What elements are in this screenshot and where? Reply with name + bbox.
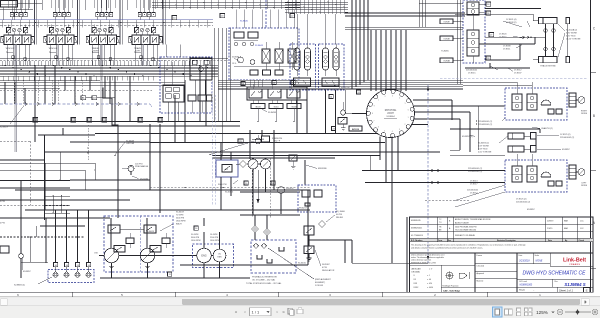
orifice label S1J0648 (209, 139, 265, 155)
svg-text:01-T7464/024: 01-T7464/024 (411, 235, 423, 237)
date and scale cells (517, 253, 550, 266)
engine enclosure dashed (193, 244, 234, 268)
svg-text:REFERENCE ASME Y14.5-1994: REFERENCE ASME Y14.5-1994 (411, 262, 436, 265)
svg-text:WL: WL (225, 169, 228, 171)
svg-text:Checked: Checked (477, 266, 484, 268)
layout button continuous (517, 308, 521, 316)
svg-text:1X 8513: 1X 8513 (470, 180, 478, 182)
svg-text:LEFT: LEFT (136, 50, 142, 52)
swing feed dashed line (427, 85, 429, 263)
travel counterbalance valve group A (290, 44, 316, 90)
revision table (410, 217, 594, 242)
pump enclosure divider (139, 216, 141, 272)
svg-text:Drawn: Drawn (477, 254, 482, 257)
svg-text:8DC8: 8DC8 (256, 106, 261, 108)
svg-text:1X 8-: 1X 8- (232, 63, 237, 65)
pilot supply bus line (0, 19, 213, 21)
svg-text:1X 8525 (2): 1X 8525 (2) (516, 199, 527, 201)
solenoid manifold bank center (247, 84, 307, 103)
upper manifold block (229, 28, 299, 80)
zoom in button (592, 309, 598, 315)
svg-text:BOX B: BOX B (352, 129, 359, 131)
svg-text:OIL VOLUME – 262 GAL: OIL VOLUME – 262 GAL (252, 279, 276, 282)
svg-text:5400 PSI: 5400 PSI (176, 218, 185, 220)
svg-text:S1J0028: S1J0028 (146, 231, 155, 233)
svg-text:SOL0: SOL0 (274, 106, 279, 108)
svg-text:3 PSI: 3 PSI (0, 201, 5, 203)
svg-text:S1J0648: S1J0648 (126, 141, 135, 143)
tags above manifold bank (238, 81, 361, 144)
svg-text:E: E (586, 289, 588, 293)
svg-text:S1J0615: S1J0615 (225, 192, 234, 194)
svg-text:TRAVEL: TRAVEL (134, 47, 143, 50)
svg-text:S1J8864: S1J8864 (386, 116, 395, 118)
svg-text:50 GPM: 50 GPM (191, 234, 199, 236)
case drain regulator 6 PSI (268, 246, 335, 287)
toolbar copy icon (288, 308, 294, 315)
svg-text:This drawing is the property o: This drawing is the property of Link-Bel… (411, 243, 526, 246)
svg-text:1X 8515: 1X 8515 (468, 72, 476, 74)
nested routing loops center-top (218, 0, 465, 89)
svg-text:S1J0094 (2): S1J0094 (2) (478, 143, 489, 145)
svg-text:WINCH 1: WINCH 1 (49, 48, 58, 50)
tank return bus line (0, 21, 213, 23)
pump control valves (108, 218, 170, 252)
wire grid - left routing (0, 65, 440, 220)
long return lines to rotary joint (180, 190, 428, 265)
pump suction and case drain wires (100, 218, 250, 279)
sheet right border (591, 0, 597, 292)
svg-text:S1J0019: S1J0019 (176, 212, 185, 214)
svg-text:DRIVE: DRIVE (581, 185, 588, 187)
svg-text:HYDRAULIC RESERVOIR: HYDRAULIC RESERVOIR (252, 276, 277, 279)
pilot dashed drops left (14, 80, 89, 160)
layout button two pages (505, 309, 513, 315)
svg-text:0 PSI: 0 PSI (0, 222, 5, 224)
layout button facing (525, 308, 533, 316)
svg-text:EAR: EAR (564, 227, 569, 230)
svg-text:± .0050: ± .0050 (427, 287, 433, 289)
svg-text:M18881000: M18881000 (520, 284, 533, 287)
return check RSL05C (278, 187, 295, 214)
label M3J5386 (305, 160, 327, 185)
main gallery bus bundle (0, 61, 218, 81)
steer line labels (466, 19, 530, 74)
svg-text:4: 4 (399, 98, 400, 100)
toolbar print icon (297, 308, 303, 314)
svg-text:1 / 1: 1 / 1 (252, 310, 261, 315)
oil cooler fan motors (248, 159, 271, 169)
svg-text:SIMILAR TO S1J8864E: SIMILAR TO S1J8864E (455, 234, 476, 237)
svg-text:100 PSI: 100 PSI (135, 164, 143, 166)
check valve bank lower left (14, 210, 94, 286)
tolerance cell (410, 254, 476, 293)
svg-text:Link‑Belt: Link‑Belt (563, 258, 586, 264)
toolbar background (0, 306, 600, 318)
svg-text:«: « (235, 310, 238, 315)
svg-text:REGULATOR: REGULATOR (322, 269, 335, 272)
title block middle rows (475, 254, 593, 292)
svg-text:6.69" BORE: 6.69" BORE (478, 146, 489, 148)
svg-text:2210099001 (2): 2210099001 (2) (468, 168, 482, 170)
svg-text:2210099501 (2): 2210099501 (2) (478, 124, 492, 126)
svg-text:2210061002 (2): 2210061002 (2) (516, 202, 530, 204)
left track drive motor block (505, 154, 588, 192)
aux solenoid valve near fan return (289, 155, 297, 169)
EO level and rev cells (520, 279, 586, 287)
fan line filter (236, 161, 247, 168)
svg-text:16.25" STROKE: 16.25" STROKE (566, 39, 581, 41)
svg-text:CEA6718 (2): CEA6718 (2) (541, 127, 553, 130)
upper manifold stubs (236, 10, 294, 29)
label S2J0829 (0, 106, 24, 129)
upper long line pair right (345, 27, 463, 29)
horizontal scrollbar thumb (182, 299, 580, 305)
svg-text:6: 6 (378, 126, 379, 128)
winch brake valve block S1J0615 (216, 143, 238, 211)
svg-text:S1J8438: S1J8438 (268, 112, 277, 114)
svg-text:T3JC156 W/AS S8J5134: T3JC156 W/AS S8J5134 (455, 229, 476, 232)
zoom slider (565, 309, 591, 314)
counterweight cylinder lower (508, 146, 536, 153)
svg-text:JCC: JCC (580, 228, 584, 230)
tag boxes top (172, 14, 295, 23)
svg-text:EO Level: EO Level (520, 281, 528, 283)
svg-text:M3J5386: M3J5386 (318, 168, 327, 170)
svg-text:3000 PSI: 3000 PSI (218, 184, 227, 186)
svg-text:S1J8640: S1J8640 (240, 20, 249, 22)
CAD Solid Edge cell (443, 289, 461, 292)
pilot control manifold (160, 45, 212, 122)
frame line left of title block (406, 217, 408, 292)
svg-text:Material: Material (477, 280, 484, 283)
svg-text:3: 3 (399, 129, 400, 131)
svg-text:65J8583: 65J8583 (232, 57, 239, 59)
riser connections to buses (3, 20, 208, 28)
track extend cylinder upper (533, 18, 570, 24)
scrollbar right button (581, 299, 589, 306)
confidentiality note (410, 242, 594, 253)
pilot phantom line with flow arrows (0, 103, 152, 107)
svg-text:2210061002: 2210061002 (467, 190, 479, 192)
svg-text:1X 8620: 1X 8620 (499, 34, 507, 36)
travel counterbalance valve group B (319, 44, 345, 90)
stepped drain line (102, 87, 118, 218)
tags right of steer stack (479, 2, 494, 60)
svg-text:unless otherwise specified.: unless otherwise specified. (411, 259, 432, 262)
svg-text:3/23/2018: 3/23/2018 (519, 259, 530, 262)
pilot dashed risers center (212, 80, 215, 205)
Link-Belt logo (550, 258, 593, 267)
fan thermostat FSBR0224 (252, 136, 283, 143)
engine (197, 248, 211, 262)
svg-text:± .020: ± .020 (427, 283, 432, 285)
svg-text:1X 8588: 1X 8588 (503, 46, 511, 48)
pump drive shaft (94, 252, 197, 255)
toolbar page number input (250, 308, 272, 316)
orifice label S1J0648 left (114, 141, 134, 157)
rotary joint feed lines top (371, 30, 406, 91)
title block main outline (410, 253, 594, 292)
svg-text:65J8857: 65J8857 (23, 271, 32, 273)
svg-text:132 °F: 132 °F (274, 141, 281, 143)
svg-text:2210099001 (2): 2210099001 (2) (478, 121, 492, 123)
solenoid coil tag boxes under manifold (251, 104, 301, 123)
svg-text:40 PSI: 40 PSI (336, 214, 342, 216)
scrollbar left button (1, 299, 8, 306)
svg-text:7: 7 (374, 120, 375, 122)
svg-text:ROTATING: ROTATING (385, 109, 397, 112)
svg-text:EACH: EACH (176, 223, 182, 226)
svg-text:Date: Date (519, 254, 523, 257)
svg-text:1X 8525 (2): 1X 8525 (2) (560, 134, 571, 136)
svg-text:DECIMAL: DECIMAL (412, 270, 420, 273)
top edge riser lines (20, 0, 300, 10)
track extend labels (558, 24, 581, 57)
svg-text:2210099501 (2): 2210099501 (2) (468, 171, 482, 173)
rotary joint lines bottom (352, 114, 398, 264)
svg-text:Rev: Rev (555, 281, 558, 283)
svg-text:1800 RPM: 1800 RPM (210, 240, 220, 242)
svg-text:EAR: EAR (564, 220, 569, 223)
svg-text:CAD - Solid Edge: CAD - Solid Edge (443, 289, 461, 292)
svg-text:65J8857 (2): 65J8857 (2) (462, 136, 473, 138)
svg-text:Scale: Scale (535, 255, 540, 257)
svg-text:JOINT: JOINT (387, 113, 394, 115)
svg-text:2: 2 (405, 124, 406, 126)
svg-text:»: » (282, 310, 285, 315)
steer crossover wires (465, 9, 545, 69)
tag BOX B (349, 126, 362, 131)
svg-text:PRECHARGE: PRECHARGE (135, 165, 149, 168)
svg-text:4.00" STROKE: 4.00" STROKE (478, 152, 492, 154)
svg-text:Weight: Weight (519, 288, 525, 291)
track extend rod-end link (455, 14, 568, 57)
svg-text:16 GPM: 16 GPM (210, 234, 218, 236)
tags OCK39 OCK38 OCK3B (440, 19, 463, 63)
svg-text:4: 4 (392, 131, 393, 133)
svg-text:Approval: Approval (477, 272, 485, 275)
svg-text:S1J6643: S1J6643 (255, 45, 264, 47)
svg-text:RSL05C: RSL05C (286, 188, 294, 190)
svg-text:1X 8631 (4): 1X 8631 (4) (506, 19, 517, 21)
tag pair B1 D4 (81, 96, 115, 104)
svg-text:1: 1 (408, 117, 409, 119)
valve section V3 (TRAVEL) (86, 0, 119, 65)
svg-text:1X 8537: 1X 8537 (514, 72, 522, 74)
suction filters above reservoir (240, 214, 300, 240)
BOX B pilot valve (332, 102, 348, 131)
svg-text:OCK39: OCK39 (443, 22, 449, 24)
terminal tag boxes row (33, 118, 163, 123)
left drive labels (467, 168, 536, 211)
svg-text:2/29/19: 2/29/19 (547, 221, 553, 223)
svg-text:(REPLACEMENT: (REPLACEMENT (315, 278, 331, 281)
svg-text:2/1/19: 2/1/19 (547, 228, 552, 230)
svg-text:1X 8517: 1X 8517 (470, 183, 478, 185)
svg-text:6 PSI: 6 PSI (322, 267, 327, 269)
svg-text:1X 8511: 1X 8511 (503, 48, 511, 50)
svg-text:65J8857: 65J8857 (527, 209, 536, 211)
zoom out button (557, 309, 563, 315)
main pressure hose risers (thick) (15, 45, 102, 153)
svg-text:1X 8512: 1X 8512 (514, 70, 522, 72)
pilot dashed return header (0, 90, 152, 92)
svg-text:DRIVE: DRIVE (581, 113, 588, 115)
svg-text:6: 6 (408, 110, 409, 112)
junction and label 65J8857 (19, 180, 32, 278)
main pump 1 (104, 248, 118, 262)
steer valve stack OCK (463, 0, 485, 63)
main pump 2 (140, 248, 154, 262)
svg-text:1: 1 (378, 100, 379, 102)
svg-text:and details contained herein i: and details contained herein is prohibit… (411, 247, 483, 250)
label DSJ1130 (132, 176, 149, 180)
svg-text:TOTAL SYSTEM VOLUME – 397 GAL: TOTAL SYSTEM VOLUME – 397 GAL (246, 282, 282, 285)
svg-text:NONE: NONE (536, 259, 543, 262)
svg-text:AD350 T3J6039: AD350 T3J6039 (455, 221, 469, 224)
svg-text:70 GPM: 70 GPM (176, 215, 184, 217)
accumulator 100 PSI PRECHARGE (122, 164, 149, 176)
main pump assembly dashed enclosure (104, 216, 173, 272)
label M5J5786 (334, 85, 350, 89)
svg-text:8: 8 (372, 113, 373, 115)
cylinder group wires (450, 128, 540, 155)
top left component box (0, 1, 42, 20)
svg-text:LEFT: LEFT (582, 183, 588, 185)
svg-text:.XXXX: .XXXX (413, 287, 419, 289)
svg-text:S2J8682 (4): S2J8682 (4) (14, 284, 25, 286)
svg-text:D5J1130: D5J1130 (140, 178, 149, 180)
junction ladder above travel cluster (285, 0, 348, 14)
svg-text:SOLB: SOLB (291, 106, 297, 108)
svg-text:3600 PSI: 3600 PSI (191, 237, 200, 239)
third angle projection symbol (441, 271, 475, 288)
svg-text:TRACK EXTEND: TRACK EXTEND (540, 65, 556, 68)
relief valve 40 PSI (304, 211, 346, 246)
valve section V4 (TRAVEL) (129, 0, 162, 65)
svg-text:DWG HYD SCHEMATIC CE: DWG HYD SCHEMATIC CE (523, 271, 587, 277)
fan circuit wires (240, 130, 300, 215)
sheet number cell (557, 287, 590, 292)
svg-text:9: 9 (374, 106, 375, 108)
svg-text:Sheet 1 of 1: Sheet 1 of 1 (559, 288, 574, 292)
svg-text:± .1: ± .1 (427, 275, 430, 277)
steer feed dashed long line (440, 78, 588, 86)
horizontal scrollbar track (0, 298, 600, 306)
zoom percentage 125% (536, 310, 554, 315)
svg-text:ELEMENT): ELEMENT) (315, 282, 325, 284)
extra top risers valve bank (9, 0, 158, 8)
svg-text:RIGHT: RIGHT (92, 50, 99, 52)
svg-text:2210061002 (2): 2210061002 (2) (560, 137, 574, 139)
track extend cylinder lower (533, 57, 570, 68)
left margin stubs (0, 201, 110, 263)
secondary gallery lines (0, 81, 185, 89)
svg-text:± 1°: ± 1° (429, 268, 433, 270)
svg-text:2900 PSI: 2900 PSI (210, 237, 219, 239)
sheet bottom border (0, 292, 600, 297)
gallery lines under valve bank (0, 59, 228, 61)
fan return arrow and dashes (150, 158, 310, 218)
svg-text:TRAVEL: TRAVEL (92, 47, 101, 50)
svg-text:B: B (593, 114, 595, 118)
svg-text:1800 RPM: 1800 RPM (191, 240, 201, 242)
svg-text:D7J0149: D7J0149 (315, 285, 324, 287)
svg-text:T5J8205: T5J8205 (441, 51, 450, 53)
svg-text:S2J0829: S2J0829 (0, 127, 9, 129)
svg-text:S1J9864 S: S1J9864 S (564, 282, 585, 287)
svg-text:3: 3 (392, 95, 393, 97)
svg-text:S1J0010: S1J0010 (298, 263, 307, 265)
svg-text:(R) J0066: (R) J0066 (336, 211, 346, 213)
pump spec labels (146, 212, 220, 277)
aux valve box P8J0217 (298, 185, 336, 212)
load sense dashed line (0, 24, 213, 26)
counterweight cylinder upper (508, 133, 536, 140)
svg-text:6.69" ROD: 6.69" ROD (478, 149, 488, 151)
svg-text:1800 RPM: 1800 RPM (176, 221, 186, 223)
svg-text:ENG: ENG (201, 255, 206, 258)
svg-text:FAN: FAN (218, 255, 222, 258)
svg-text:125%: 125% (536, 310, 548, 315)
P/T gallery risers between valve sections (35, 0, 166, 45)
svg-text:5000 PSI W/AS 4940 PSI: 5000 PSI W/AS 4940 PSI (455, 225, 477, 228)
svg-text:65J8857: 65J8857 (562, 149, 571, 151)
track extend check valves (544, 24, 555, 57)
svg-text:5: 5 (405, 103, 406, 105)
svg-text:M-8801035: M-8801035 (411, 220, 421, 222)
manifold-to-coil risers (250, 80, 262, 87)
left drive feed wires (362, 156, 505, 208)
dashed enclosure lower left (0, 141, 70, 206)
svg-text:WINCH 2: WINCH 2 (6, 48, 15, 50)
svg-text:5: 5 (384, 130, 385, 132)
svg-text:± .06: ± .06 (427, 279, 431, 281)
svg-text:M-8882/2021: M-8882/2021 (411, 227, 422, 229)
svg-text:JCC: JCC (580, 221, 584, 223)
right track drive motor block (505, 82, 588, 120)
layout button single page (active) (493, 307, 503, 317)
drawing title DWG HYD SCHEMATIC CE (517, 271, 593, 280)
svg-text:C R A N E S: C R A N E S (569, 263, 580, 266)
svg-text:OCK3B: OCK3B (443, 61, 450, 63)
valve section V2 (WINCH 1) (44, 0, 77, 65)
svg-text:RIGHT: RIGHT (581, 111, 588, 113)
left area long line extensions (0, 151, 96, 210)
svg-text:OCK38: OCK38 (443, 39, 449, 41)
valve section V1 (WINCH 2) (1, 0, 34, 65)
rotary joint lines right (411, 100, 505, 152)
svg-text:M5J5786: M5J5786 (341, 87, 350, 89)
return mesh lower left (44, 195, 70, 214)
right drive part labels (476, 118, 505, 126)
svg-text:ANGULAR: ANGULAR (412, 267, 422, 270)
hydraulic reservoir (246, 240, 296, 285)
thermostat sensor circle (255, 135, 261, 144)
pilot riser dashed (265, 0, 267, 28)
rotating joint S1J8864 (366, 89, 414, 137)
winch brake feed line pair (212, 100, 380, 159)
oil cooler fan drive (211, 249, 226, 262)
svg-text:Third Angle Projection: Third Angle Projection (442, 285, 459, 288)
svg-text:2210061002: 2210061002 (466, 70, 478, 72)
counterweight cylinder labels (462, 127, 574, 154)
travel cluster drops (297, 14, 366, 134)
svg-text:.040 DIA: .040 DIA (126, 142, 134, 145)
manifold risers (213, 28, 230, 127)
svg-text:2: 2 (385, 96, 386, 98)
